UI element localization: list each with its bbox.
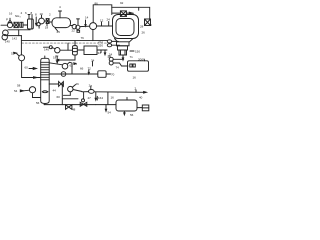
wire vessel12 right xyxy=(71,25,74,27)
svg-text:60: 60 xyxy=(57,95,61,99)
vent lines above vessel 10 xyxy=(28,15,30,20)
small circle pair mid xyxy=(49,46,52,49)
two small circles right mid xyxy=(109,57,113,61)
pump 62 xyxy=(62,63,68,69)
column trays xyxy=(41,62,50,80)
svg-text:10: 10 xyxy=(40,12,44,16)
wire vessel 10 bottom drop xyxy=(8,28,30,31)
wire to compressor xyxy=(80,25,90,27)
box 200 xyxy=(128,61,149,71)
right drop to bottoms line xyxy=(107,92,109,104)
trap circles D,E xyxy=(72,24,76,28)
svg-text:2a: 2a xyxy=(89,83,93,87)
svg-text:52: 52 xyxy=(11,52,15,56)
svg-text:16: 16 xyxy=(133,76,137,80)
pump P1 xyxy=(7,23,12,28)
stub 92 xyxy=(138,7,140,10)
stub x78 xyxy=(77,19,79,25)
svg-text:164: 164 xyxy=(98,96,103,100)
inline circle on line74 xyxy=(61,72,66,77)
svg-text:22: 22 xyxy=(72,29,76,33)
svg-text:14: 14 xyxy=(85,16,89,20)
svg-text:48: 48 xyxy=(72,108,76,112)
small trap vessel xyxy=(20,22,23,27)
circle52 down pipe xyxy=(22,61,41,78)
oval 2 xyxy=(89,90,95,94)
svg-text:64: 64 xyxy=(74,62,78,66)
150 arrow xyxy=(130,50,134,52)
bottom left pump 56 xyxy=(29,87,35,93)
bottoms line xyxy=(44,104,96,106)
recycle riser from compressor xyxy=(93,5,112,23)
svg-text:47: 47 xyxy=(88,96,92,100)
svg-text:74: 74 xyxy=(116,66,120,70)
column bottom ellipse xyxy=(42,91,48,93)
valve w circle bottom xyxy=(82,99,85,102)
valve 48 xyxy=(66,105,72,110)
svg-text:92: 92 xyxy=(120,1,124,5)
small box right bottom xyxy=(142,105,149,111)
inlet xyxy=(96,104,116,106)
svg-text:76: 76 xyxy=(81,36,85,40)
hopper under tank xyxy=(115,39,134,42)
wire P1 to V2 xyxy=(13,24,14,26)
wire feed line left to pump P1 xyxy=(1,24,7,26)
svg-text:34: 34 xyxy=(91,58,95,62)
svg-text:56: 56 xyxy=(36,101,40,105)
box 30 xyxy=(145,19,151,26)
svg-text:34: 34 xyxy=(98,51,102,55)
svg-text:66: 66 xyxy=(80,67,84,71)
svg-text:250: 250 xyxy=(98,44,103,48)
box 70 xyxy=(98,71,106,78)
horizontal vessel 12 xyxy=(52,18,71,28)
arrow 64 xyxy=(74,63,77,64)
svg-text:58: 58 xyxy=(17,84,21,88)
long header line A xyxy=(22,40,108,42)
svg-text:60: 60 xyxy=(25,66,29,70)
svg-text:4: 4 xyxy=(21,11,23,15)
svg-text:24: 24 xyxy=(57,30,61,34)
svg-text:56: 56 xyxy=(130,113,134,117)
svg-text:40: 40 xyxy=(139,96,143,100)
small tower 76 xyxy=(73,46,78,55)
svg-text:70: 70 xyxy=(111,73,115,77)
box 32 xyxy=(84,46,97,55)
small circle below xyxy=(37,23,40,26)
tick 164 xyxy=(95,92,97,99)
svg-text:18: 18 xyxy=(53,56,57,60)
svg-text:P: P xyxy=(6,18,8,22)
small box below E xyxy=(77,30,80,32)
svg-text:2: 2 xyxy=(49,13,51,17)
circle 20 xyxy=(39,18,45,24)
side line to box 70 xyxy=(49,73,98,75)
left circle 52 xyxy=(19,55,25,61)
svg-text:12: 12 xyxy=(100,19,104,23)
svg-text:200: 200 xyxy=(138,58,143,62)
svg-text:26: 26 xyxy=(142,31,146,35)
left circulator circles xyxy=(3,30,9,36)
wire 46 to oval xyxy=(73,90,82,92)
distillation column 40 xyxy=(41,58,50,103)
svg-text:86: 86 xyxy=(95,2,99,6)
hopper outlet arrow xyxy=(122,55,124,59)
pump62 outlet xyxy=(67,62,72,74)
long header line B dashed xyxy=(22,42,108,44)
label ticks 14 12 24 xyxy=(85,20,87,26)
svg-text:71: 71 xyxy=(130,55,134,59)
tick 34 xyxy=(92,62,94,67)
svg-text:9: 9 xyxy=(150,23,152,27)
svg-text:28: 28 xyxy=(140,25,144,29)
outlet to box xyxy=(137,107,142,109)
arrow into circle52 xyxy=(14,52,17,54)
svg-text:78: 78 xyxy=(108,54,112,58)
oval valves 252 250 xyxy=(107,40,111,43)
vessel40 bottom arrow xyxy=(123,111,125,114)
tower76 outlet down-left xyxy=(57,55,75,60)
wire into X-valve xyxy=(112,12,120,14)
svg-text:16: 16 xyxy=(111,95,115,99)
svg-text:46: 46 xyxy=(76,82,80,86)
vessel 40 bottom right xyxy=(116,100,137,111)
feed arrow 60 xyxy=(29,68,34,70)
tick 164 xyxy=(96,96,98,100)
svg-text:4: 4 xyxy=(59,5,61,9)
svg-text:44: 44 xyxy=(53,89,57,93)
arrow 54 bottom xyxy=(105,105,107,111)
circle 46 xyxy=(68,86,73,91)
tick 2 xyxy=(135,90,137,93)
svg-text:140: 140 xyxy=(44,48,49,52)
tick 18 xyxy=(56,57,58,63)
vent above vessel 12 xyxy=(59,11,61,18)
pipe over tank to box 30 xyxy=(112,7,150,19)
arrow line down x36 xyxy=(35,17,37,25)
compressor circle 12 xyxy=(90,23,97,30)
svg-text:150: 150 xyxy=(135,50,140,54)
arrow into tank top xyxy=(129,12,132,14)
wire circle to tower76 xyxy=(60,43,68,50)
svg-text:72: 72 xyxy=(88,67,92,71)
tick 72 xyxy=(88,70,90,74)
valve 42 xyxy=(59,82,64,87)
svg-text:140: 140 xyxy=(5,40,10,44)
wire V2 to vessel 10 xyxy=(18,24,20,26)
wire compressor to tank xyxy=(96,25,112,27)
branch down from compressor xyxy=(92,29,94,40)
tiny text labels xyxy=(5,1,152,117)
valve V2 with X body xyxy=(14,22,18,27)
svg-text:142: 142 xyxy=(12,37,17,41)
svg-text:18: 18 xyxy=(45,26,49,30)
svg-text:54: 54 xyxy=(14,89,18,93)
tank 26 outer xyxy=(113,15,139,39)
X-valve top right xyxy=(120,11,126,17)
box32 outlet xyxy=(97,49,107,51)
column top stub xyxy=(44,56,46,58)
valve box with X xyxy=(46,19,49,24)
tank 26 inner xyxy=(116,19,134,36)
vessel40 top stub xyxy=(126,97,128,100)
oval outlet right long xyxy=(94,91,146,94)
drain diagonal xyxy=(55,28,58,32)
svg-text:8: 8 xyxy=(35,13,37,17)
svg-text:6: 6 xyxy=(25,11,27,15)
svg-text:54: 54 xyxy=(108,111,112,115)
svg-text:24: 24 xyxy=(107,18,111,22)
vessel 10 xyxy=(28,19,34,29)
recirc stub xyxy=(62,98,78,100)
svg-text:16: 16 xyxy=(9,12,13,16)
